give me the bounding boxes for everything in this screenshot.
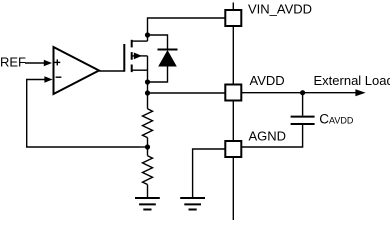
- junction dot feedback node: [145, 144, 150, 149]
- transistor Q1 pass FET: [124, 40, 147, 72]
- op-amp U1: [54, 47, 100, 94]
- junction dot AVDD tap: [145, 90, 150, 95]
- ground below R2: [135, 198, 160, 210]
- junction dot drain/diode top: [145, 32, 150, 37]
- junction dot cap tap: [300, 90, 305, 95]
- junction dot source/diode bottom: [145, 79, 150, 84]
- svg-text:External Load: External Load: [314, 73, 390, 88]
- wire drain to top rail: [148, 18, 226, 41]
- svg-text:C: C: [319, 112, 329, 127]
- terminal AGND: [225, 141, 241, 157]
- wire source node to AVDD terminal: [148, 92, 226, 94]
- wire feedback to op-amp - input: [27, 76, 148, 147]
- wire REF to op-amp + input: [25, 60, 52, 66]
- wire bus VIN to AVDD: [232, 26, 234, 85]
- ground at AGND: [180, 198, 205, 210]
- wire bus below AGND: [232, 157, 234, 220]
- wire bus AVDD to AGND: [232, 101, 234, 142]
- wire op-amp output to gate: [99, 70, 124, 72]
- resistor R2: [143, 156, 153, 185]
- svg-text:AGND: AGND: [249, 128, 287, 143]
- wire R1 to R2: [147, 138, 149, 156]
- terminal VIN_AVDD: [225, 3, 241, 27]
- wire AGND to ground: [193, 149, 226, 198]
- body diode D1: [148, 35, 178, 82]
- terminal AVDD: [225, 85, 241, 101]
- svg-text:VIN_AVDD: VIN_AVDD: [248, 2, 312, 17]
- capacitor C_AVDD: [241, 93, 314, 147]
- svg-text:REF: REF: [0, 54, 26, 69]
- svg-text:AVDD: AVDD: [329, 116, 354, 126]
- wire R2 to ground: [147, 185, 149, 199]
- svg-text:AVDD: AVDD: [250, 73, 285, 88]
- wire AVDD to external load: [241, 89, 365, 96]
- resistor R1: [143, 109, 153, 138]
- wire source/body node down to resistors: [147, 56, 149, 109]
